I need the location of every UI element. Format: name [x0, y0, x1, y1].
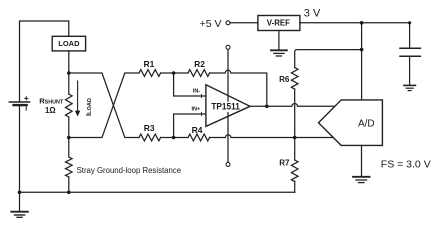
label TP1511	[211, 100, 239, 111]
wire IN+ tap	[174, 114, 206, 138]
svg-text:R7: R7	[279, 158, 290, 167]
ground (V-REF)	[271, 50, 287, 56]
node ground bus left	[18, 191, 22, 195]
terminal V- circle	[226, 162, 230, 166]
label RSHUNT	[39, 97, 64, 106]
label IN-	[193, 88, 201, 94]
svg-text:TP1511: TP1511	[211, 100, 239, 111]
pin tick IN-	[201, 94, 203, 97]
wire bottom ground bus	[20, 191, 295, 193]
A/D converter block	[319, 100, 383, 145]
ground (A/D)	[353, 177, 370, 183]
wire R4 to reference node (hop over supply)	[210, 135, 334, 138]
capacitor C1 bottom lead	[409, 57, 411, 85]
resistor R6	[291, 68, 298, 90]
label R2	[194, 59, 205, 69]
svg-text:IN+: IN+	[191, 107, 200, 113]
supply rail of op-amp	[227, 49, 229, 162]
wire IN- tap	[174, 73, 206, 96]
wire A/D to ground	[361, 145, 363, 176]
svg-text:Stray Ground-loop Resistance: Stray Ground-loop Resistance	[77, 166, 181, 175]
op-amp U1 TP1511	[206, 85, 250, 127]
battery	[9, 97, 29, 110]
wire cross bottom-left to top-right	[69, 73, 139, 138]
terminal V+ circle	[226, 45, 230, 49]
node cap corner	[408, 21, 411, 24]
resistor R3	[139, 134, 161, 141]
svg-text:FS = 3.0 V: FS = 3.0 V	[381, 159, 431, 171]
label IN+	[191, 107, 200, 113]
svg-text:LOAD: LOAD	[58, 39, 80, 48]
resistor R1	[139, 70, 161, 77]
wire R3 to R4	[161, 137, 188, 139]
svg-text:R3: R3	[144, 123, 155, 133]
ground (battery)	[11, 212, 28, 218]
svg-text:V-REF: V-REF	[267, 18, 290, 28]
capacitor C1	[400, 48, 420, 56]
capacitor C1 top lead	[409, 23, 411, 48]
svg-text:R4: R4	[192, 125, 203, 135]
label R3	[144, 123, 155, 133]
svg-text:R6: R6	[279, 75, 290, 84]
wire battery to ground	[19, 105, 21, 211]
wire op-amp output to A/D (hop over divider rail)	[250, 104, 335, 107]
label 3 V	[304, 8, 321, 20]
wire +5V to V-REF	[230, 22, 258, 24]
wire cross top-left to bottom-right	[69, 73, 139, 138]
label +5 V	[200, 18, 222, 30]
regulator V-REF box	[258, 16, 300, 31]
wire LOAD to node A	[68, 51, 70, 73]
label R7	[279, 158, 290, 167]
wire R6 to R7 node	[294, 89, 296, 160]
wire R7 to ground bus	[294, 181, 296, 192]
label R1	[143, 59, 154, 69]
svg-text:A/D: A/D	[358, 118, 375, 129]
wire R1 to R2	[161, 72, 188, 74]
resistor RSHUNT	[66, 73, 73, 138]
resistor stray ground-loop	[66, 138, 73, 193]
wire V-REF to ground	[278, 31, 280, 51]
svg-text:R1: R1	[143, 59, 154, 69]
node divider tap off 3V	[360, 48, 364, 52]
label FS = 3.0 V	[381, 159, 431, 171]
arrow ILOAD	[75, 81, 80, 117]
node B (shunt bottom)	[67, 136, 71, 140]
wire R2 feedback to output (hop over supply)	[210, 70, 267, 106]
label R6	[279, 75, 290, 84]
label V-REF	[267, 18, 290, 28]
label R4	[192, 125, 203, 135]
svg-text:IN-: IN-	[193, 88, 201, 94]
svg-text:1Ω: 1Ω	[45, 106, 56, 115]
label 1 ohm	[45, 106, 56, 115]
resistor R4	[188, 134, 210, 141]
svg-text:3 V: 3 V	[304, 8, 321, 20]
node R6-R7-R4	[293, 136, 297, 140]
wire 3V to divider rail	[295, 23, 362, 68]
label Stray Ground-loop Resistance	[77, 166, 181, 175]
resistor R2	[188, 70, 210, 77]
wire V-REF output 3V rail	[300, 22, 410, 24]
node R3-R4	[172, 136, 176, 140]
label ILOAD	[84, 98, 93, 116]
terminal +5V circle	[226, 21, 230, 25]
ground (capacitor)	[404, 85, 416, 90]
resistor R7	[291, 160, 298, 182]
node A (load / shunt top)	[67, 71, 71, 75]
pin tick IN+	[201, 112, 203, 115]
node output-feedback	[265, 105, 269, 109]
node R1-R2	[172, 71, 176, 75]
wire top-left loop	[20, 21, 69, 102]
node stray / ground bus	[67, 191, 71, 195]
label LOAD	[58, 39, 80, 48]
svg-text:+5 V: +5 V	[200, 18, 222, 30]
node 3V rail	[360, 21, 364, 25]
svg-text:R2: R2	[194, 59, 205, 69]
label A/D	[358, 118, 375, 129]
wire 3V rail down to A/D ref pin	[361, 50, 363, 100]
LOAD box	[52, 36, 85, 51]
